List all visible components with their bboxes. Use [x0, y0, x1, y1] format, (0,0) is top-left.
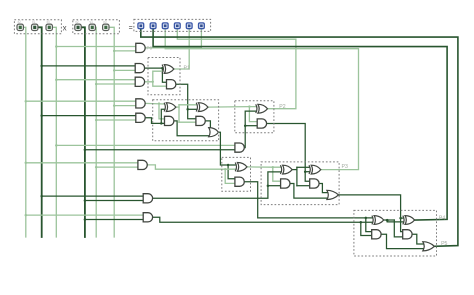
dashed box input group B	[73, 20, 120, 34]
wire P2 net HA2 sum to pin	[177, 29, 296, 108]
node bus junction	[84, 199, 87, 202]
wire FA1 branch to xor1.in2	[161, 109, 164, 123]
node bus junction	[25, 162, 28, 165]
svg-text:P4: P4	[439, 215, 445, 221]
node HA3 node	[227, 164, 230, 167]
svg-text:y0: y0	[103, 20, 107, 24]
AND gate U9 a0b2	[235, 143, 244, 152]
svg-text:x1: x1	[32, 20, 36, 24]
dashed box output group P	[134, 19, 211, 31]
wire y1 to AND3.in2	[96, 83, 135, 85]
wire bus x0 (A3)	[53, 27, 57, 237]
wire FA2 and2 to or.in1	[319, 184, 327, 193]
wire sum1 to xor2.in1	[179, 104, 196, 106]
wire FA1 sum out to HA2	[208, 106, 256, 109]
node c4 node	[399, 217, 402, 220]
AND gate U8 a2b2	[143, 213, 152, 222]
wire bus y2 (B1) dark	[81, 27, 85, 237]
wire x0 to AND9.in1	[56, 144, 235, 146]
wire bus x1 (A2) dark	[38, 27, 42, 237]
AND gate U7 a1b2	[143, 194, 152, 203]
wire bus x2 (A1)	[23, 27, 26, 237]
wire HA3 carry branch to P4 and1.in1	[366, 218, 372, 232]
wire P4 sum1 stub	[384, 219, 395, 221]
input pin A1 x2	[17, 24, 23, 30]
wire AND4 out to FA1 xor1.in1	[145, 102, 164, 105]
XOR gate FA2 xor2	[309, 165, 321, 174]
wire HA3 sum branch to FA2 and1.in1	[273, 167, 281, 181]
wire FA2 sum1 stub	[292, 169, 297, 171]
wire AND9 branch to HA2 and.in2	[245, 125, 257, 127]
wire FA1 and1 to or.in2	[174, 121, 209, 136]
XOR gate HA2 xor	[256, 104, 268, 113]
output pin P2	[174, 23, 180, 29]
dashed box half adder HA2	[235, 101, 274, 133]
OR gate P4 or	[423, 242, 435, 251]
wire carry branch to FA1 xor2.in2	[188, 108, 197, 110]
wire FA1 sum1 vert	[178, 105, 180, 122]
node bus junction	[55, 78, 58, 81]
node FA2 node a	[272, 166, 274, 168]
node P4 node b	[360, 221, 363, 224]
node HA3 node2	[224, 168, 226, 170]
wire AND2 out to HA1 xor in1	[145, 67, 163, 69]
input pin A2 x1	[32, 24, 38, 30]
AND gate P4 and1	[372, 230, 381, 239]
node bus junction	[25, 214, 28, 217]
wire FA2 and1 to or.in2	[290, 184, 328, 199]
svg-text:P2: P2	[279, 104, 285, 110]
dashed box full adder FA1	[153, 100, 219, 141]
node FA2 node b	[267, 184, 270, 187]
AND gate FA1 and1	[165, 116, 174, 125]
AND gate P4 and2	[403, 230, 412, 239]
wire y1 to AND6.in2	[96, 166, 138, 168]
wire x2 to AND6.in1	[26, 162, 138, 164]
wire x2 to AND8.in1	[26, 214, 143, 216]
wire P4 and2 to or.in1	[412, 234, 423, 244]
wire y0 to AND4.in2	[114, 105, 136, 107]
wire HA1 branch to and.in1	[162, 68, 166, 82]
wire HA1 carry to FA1	[176, 84, 196, 119]
XOR gate P4 xor1	[372, 216, 384, 225]
node P4 sum1 dot	[386, 219, 389, 222]
wire bus y1 (B2)	[95, 27, 98, 237]
wire P4 sum1 to xor2.in2	[387, 220, 403, 222]
wire P1 net HA1 sum to pin	[174, 29, 189, 69]
OR gate FA2 or	[327, 190, 339, 199]
wire y2 to AND7.in2	[85, 200, 143, 202]
input pin B3 y0	[103, 24, 109, 30]
XOR gate P4 xor2	[403, 216, 415, 225]
wire HA1 branch to and.in2	[153, 82, 167, 86]
XOR gate FA2 xor1	[280, 165, 292, 174]
AND gate U1 a0b0	[136, 43, 145, 52]
node bus junction	[95, 83, 98, 86]
input pin B2 y1	[89, 24, 95, 30]
output pin P0	[199, 23, 205, 29]
AND gate U6 a2b1	[138, 160, 147, 169]
XOR gate FA1 xor2	[196, 103, 208, 112]
wire HA2 carry c3 to FA2 and2.in1	[267, 124, 310, 182]
wire x1 to AND5.in1	[42, 115, 136, 117]
node HA2 node	[248, 105, 250, 107]
XOR gate HA1 xor	[162, 65, 174, 74]
svg-text:P0: P0	[147, 45, 153, 50]
node HA2 node2	[244, 124, 247, 127]
svg-text:x0: x0	[47, 20, 51, 24]
wire FA2 sum1 to xor2.in1	[297, 166, 309, 168]
wire FA1 branch to and1.in1	[159, 104, 165, 119]
node bus junction	[84, 218, 87, 221]
svg-text:x2: x2	[18, 20, 22, 24]
wire FA2 sum1 vert	[296, 167, 298, 185]
wire FA1 sum1 stub	[176, 106, 179, 108]
wire y0 to AND2.in2	[114, 69, 135, 71]
wire bus y0 (B3)	[109, 27, 114, 237]
node bus junction	[113, 104, 116, 107]
wire x0 to AND3.in1	[56, 79, 135, 81]
wire P0 net AND1 out to pin	[145, 29, 201, 48]
node bus junction	[95, 119, 98, 122]
output pin P1	[186, 23, 192, 29]
node bus junction	[84, 149, 87, 152]
wire AND8 branch to P4 and1.in2	[361, 222, 372, 235]
wire AND7 branch to FA2 and1.in2	[268, 185, 281, 187]
wire HA3 carry to P4 xor1.in1	[244, 182, 372, 218]
node bus junction	[95, 166, 98, 169]
input pin A3 x0	[46, 24, 52, 30]
svg-text:y2: y2	[75, 20, 79, 24]
wire x1 to AND2.in1	[42, 65, 136, 67]
wire x0 to AND1.in1	[56, 46, 136, 48]
node bus junction	[55, 144, 58, 147]
svg-text:P5: P5	[441, 241, 447, 247]
wire c3 branch to FA2 xor2.in2	[305, 171, 309, 173]
output pin P5	[138, 23, 144, 29]
wire P4 net to pin	[153, 29, 447, 220]
wire FA1 and2 to or.in1	[205, 121, 210, 131]
dashed box half adder HA3	[222, 157, 251, 191]
wire y1 to AND5.in2	[96, 119, 136, 121]
node HA1 node	[161, 67, 164, 70]
node carry node	[186, 108, 189, 111]
wire x1 to AND7.in1	[42, 195, 144, 197]
node FA1 node b	[160, 122, 163, 125]
node bus junction	[113, 50, 116, 53]
wire y0 to AND1.in2	[114, 50, 136, 52]
wire y2 to AND8.in2	[85, 219, 143, 221]
wire P3 net FA2 sum to pin	[165, 29, 358, 169]
wire P4 sum1 to and2.in2	[394, 220, 402, 237]
node bus junction	[40, 114, 43, 117]
AND gate HA3 and	[235, 177, 244, 186]
AND gate FA2 and2	[310, 179, 319, 188]
wire AND7 out to FA2 xor1.in2	[153, 172, 281, 198]
svg-text:=: =	[129, 25, 133, 32]
node c3 node	[304, 170, 307, 173]
AND gate HA1 and	[167, 80, 176, 89]
output pin P4	[150, 23, 156, 29]
wire sum1 to and2.in2	[179, 121, 196, 123]
node FA1 node a	[158, 102, 160, 104]
wire y2 to AND9.in2	[85, 149, 235, 151]
node HA1 node2	[152, 81, 154, 83]
wire AND9 out up to HA2 xor.in2	[244, 111, 255, 148]
svg-text:P1: P1	[184, 65, 190, 71]
wire FA1 carry out to HA3	[219, 132, 236, 165]
wire FA2 carry c4 to P4 and2.in1	[339, 195, 403, 232]
node bus junction	[55, 45, 58, 48]
wire AND5 out to FA1 and1.in2	[145, 118, 164, 124]
output pin P3	[162, 23, 168, 29]
dashed box full adder FA2	[261, 162, 339, 205]
AND gate FA2 and1	[281, 179, 290, 188]
wire FA1 sum branch to HA2 and.in1	[249, 107, 257, 122]
node P4 node a	[365, 217, 368, 220]
wire FA2 sum1 to and2.in2	[297, 185, 310, 187]
wire HA3 sum to FA2 xor1.in1	[247, 166, 280, 168]
node bus junction	[25, 100, 28, 103]
AND gate U4 a2b0	[136, 99, 145, 108]
wire P5 net to pin	[141, 29, 458, 246]
AND gate U5 a1b1	[136, 113, 145, 122]
wire c2 branch to HA3 and.in1	[228, 165, 235, 179]
node bus junction	[113, 69, 116, 72]
AND gate FA1 and2	[196, 116, 205, 125]
AND gate U2 a1b0	[135, 64, 144, 73]
wire AND6 out to HA3 xor.in2	[147, 165, 235, 169]
wire AND6 branch to HA3 and.in2	[225, 169, 235, 183]
svg-text:y1: y1	[90, 20, 94, 24]
svg-text:P3: P3	[342, 164, 348, 170]
wire AND8 out to P4 xor1.in2	[153, 217, 372, 222]
wire x2 to AND4.in1	[26, 100, 136, 102]
AND gate U3 a0b1	[135, 77, 144, 86]
node bus junction	[40, 65, 43, 68]
wire P4 and1 to or.in2	[381, 234, 423, 248]
input pin B1 y2	[75, 24, 81, 30]
dashed box input group A	[14, 20, 61, 34]
XOR gate FA1 xor1	[164, 103, 176, 112]
XOR gate HA3 xor	[235, 163, 247, 172]
OR gate FA1 or	[209, 128, 219, 137]
wire c4 branch to P4 xor2.in1	[401, 217, 403, 219]
dashed box full adder P4/P5	[354, 210, 437, 256]
dashed box half adder HA1	[148, 58, 180, 95]
svg-text:x: x	[63, 24, 67, 33]
wire AND3 out to HA1 xor in2	[145, 71, 163, 82]
AND gate HA2 and	[257, 119, 266, 128]
node bus junction	[40, 195, 43, 198]
